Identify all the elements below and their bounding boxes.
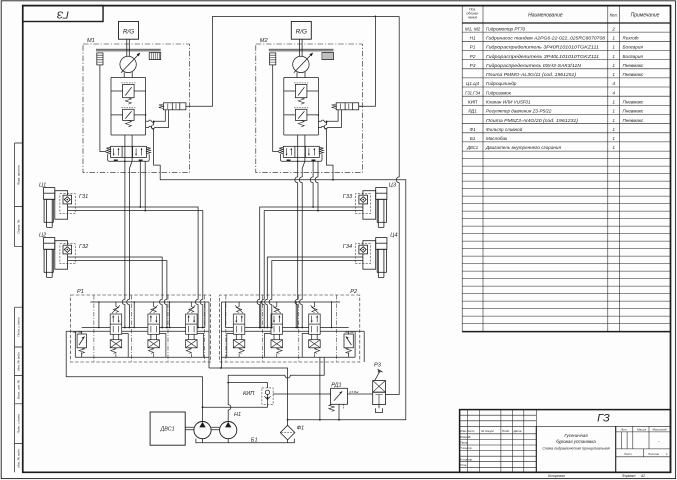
junction: pump 2 line to КИП branch [227, 382, 229, 384]
junction: drain at filter riser [287, 419, 289, 421]
engine to pump shaft [185, 427, 219, 430]
svg-text:Р1: Р1 [77, 289, 84, 295]
svg-text:Р1: Р1 [470, 45, 476, 50]
svg-text:1: 1 [612, 127, 615, 132]
wire: КИП output to РД1 [273, 393, 331, 395]
svg-text:Инв. № дубл.: Инв. № дубл. [16, 352, 20, 371]
wire: common case drain line to tank filter [154, 135, 406, 420]
svg-text:–: – [657, 439, 660, 443]
svg-text:Масштаб: Масштаб [653, 428, 667, 432]
svg-text:Р3: Р3 [374, 363, 382, 369]
junction: Ц1 drop B at P1 rail [202, 327, 204, 329]
svg-text:Пров.: Пров. [460, 441, 468, 445]
svg-text:Гидронасос тандем А2РG6-22-022: Гидронасос тандем А2РG6-22-022_025RC8070… [486, 36, 606, 41]
svg-text:Гусеничная: Гусеничная [564, 433, 588, 438]
junction: Ц2 drop A at P1 rail [161, 327, 163, 329]
svg-text:Подп. и дата: Подп. и дата [16, 414, 20, 434]
Р3 manual lever [375, 369, 383, 380]
junction: Ц3 drop A at P2 rail [259, 327, 261, 329]
wire: brake trunk down to valve Р3 with hop [385, 16, 399, 394]
junction: M2 valve port A at subplate [297, 160, 299, 162]
P2 section 1 [227, 302, 245, 358]
manifold P1 housing [66, 295, 211, 362]
wire: M2 valve drops to P2 with hops [295, 135, 305, 328]
svg-text:ДВС1: ДВС1 [160, 427, 175, 433]
title block texts [460, 428, 668, 467]
junction: M2 case drain into common drain [332, 179, 334, 181]
motor assembly M2 [256, 22, 362, 173]
svg-text:Гидрораспределитель 0SН3-SАК3/: Гидрораспределитель 0SН3-SАК3/11N [486, 63, 582, 68]
svg-text:Болгария: Болгария [623, 54, 644, 59]
wire: pump 1 pressure to P1 inlet [66, 362, 202, 421]
svg-text:Р2: Р2 [350, 289, 358, 295]
svg-text:КИП: КИП [468, 100, 478, 105]
svg-text:1: 1 [612, 145, 615, 150]
svg-text:А2: А2 [640, 474, 645, 478]
svg-text:Г31.Г34: Г31.Г34 [465, 90, 481, 95]
wire: M2 A/B tee joins with hops [310, 161, 318, 210]
svg-text:Дата: Дата [513, 429, 522, 433]
svg-text:Т.контр.: Т.контр. [460, 446, 472, 450]
svg-text:Гидромотор РТ70: Гидромотор РТ70 [486, 26, 526, 31]
wire: P2 tank return to drain [319, 357, 321, 420]
svg-text:Плита РМ5Z3-АI4G/20 (соd. 1961: Плита РМ5Z3-АI4G/20 (соd. 1961231) [486, 118, 579, 123]
svg-text:Регулятор давления Z3-Р5/22: Регулятор давления Z3-Р5/22 [486, 109, 552, 114]
junction: РД1 drain into drain line [338, 419, 340, 421]
wire: M1 shuttle port up and across top [190, 16, 400, 106]
junction: M2 line B into Ц3 pair [317, 210, 319, 212]
junction: M1 valve port A at subplate [124, 160, 126, 162]
wire: cylinder Ц2 pair to P1 [68, 257, 167, 328]
cylinder Ц2 with lock Г32 [44, 238, 76, 278]
svg-text:Взам. инв. №: Взам. инв. № [16, 379, 20, 399]
P2 section 2 [265, 302, 283, 358]
svg-text:Изм.Лист: Изм.Лист [460, 429, 475, 433]
left margin cell lines [15, 143, 23, 472]
svg-text:Ц2: Ц2 [39, 232, 47, 238]
svg-text:Г33: Г33 [343, 194, 353, 200]
svg-text:2: 2 [611, 26, 615, 31]
pump H1 front section [194, 422, 211, 439]
svg-text:Г32: Г32 [79, 244, 89, 250]
junction: P2 return into common return [220, 367, 222, 369]
junction: M2 drop A at P2 rail [297, 327, 299, 329]
svg-text:Гидроцилиндр: Гидроцилиндр [486, 81, 517, 86]
junction: Ц2 drop B at P1 rail [166, 327, 168, 329]
svg-text:Гидрораспределитель 3Р40L10101: Гидрораспределитель 3Р40L101010ТGKZ111 [486, 54, 600, 59]
svg-text:Лит.: Лит. [620, 428, 628, 432]
svg-text:Б1: Б1 [251, 437, 258, 443]
cylinder Ц4 with lock Г34 [355, 238, 387, 278]
svg-text:Инв. № подл.: Инв. № подл. [16, 448, 20, 467]
svg-text:Пневмакс: Пневмакс [623, 100, 645, 105]
svg-text:1: 1 [612, 54, 615, 59]
svg-text:Наименование: Наименование [528, 12, 563, 18]
cylinder Ц1 with lock Г31 [44, 188, 76, 228]
svg-text:Rexroth: Rexroth [623, 36, 640, 41]
svg-text:1: 1 [612, 72, 615, 77]
cylinder Ц3 with lock Г33 [355, 188, 387, 228]
svg-text:Пневмакс: Пневмакс [623, 118, 645, 123]
svg-text:4: 4 [612, 90, 615, 95]
right part [616, 432, 671, 457]
pressure regulator РД1 [331, 388, 348, 404]
svg-text:Листов: Листов [647, 452, 659, 456]
svg-text:буровая установка: буровая установка [556, 439, 596, 444]
wire: pump suction lines [203, 439, 288, 443]
motor assembly M1 [83, 22, 190, 173]
svg-text:Перв. примен.: Перв. примен. [16, 164, 20, 185]
junction: P2 drain into drain line [319, 419, 321, 421]
junction: pump 1 line to КИП branch [202, 406, 204, 408]
svg-text:160 bar: 160 bar [345, 330, 356, 334]
tank Б1 [196, 439, 294, 443]
table row texts [465, 26, 644, 150]
svg-text:Р3: Р3 [470, 63, 476, 68]
svg-text:Пневмакс: Пневмакс [623, 72, 645, 77]
junction: Ц4 drop A at P2 rail [266, 327, 268, 329]
svg-text:Масса: Масса [637, 428, 646, 432]
svg-text:ГЗ: ГЗ [597, 413, 610, 425]
corner designation box [23, 6, 103, 22]
junction: M2 line A into Ц3 pair [312, 206, 314, 208]
junction: Ц3 drop B at P2 rail [263, 327, 265, 329]
svg-text:Примечание: Примечание [631, 12, 660, 18]
svg-text:Кол.: Кол. [610, 12, 618, 17]
junction: Ц1 drop A at P1 rail [197, 327, 199, 329]
table grid [462, 6, 619, 332]
svg-text:Ц4: Ц4 [390, 232, 397, 238]
svg-text:Б1: Б1 [470, 136, 476, 141]
junction: Ц4 drop B at P2 rail [271, 327, 273, 329]
svg-text:Н.контр.: Н.контр. [460, 457, 473, 461]
P2 section 3 [302, 302, 320, 358]
junction: M1 drop B at P1 rail [129, 327, 131, 329]
svg-text:М2: М2 [260, 38, 269, 44]
svg-text:1: 1 [612, 136, 615, 141]
svg-text:чение: чение [468, 16, 477, 20]
svg-text:КИП: КИП [243, 391, 255, 397]
svg-text:Н1: Н1 [234, 412, 241, 418]
svg-text:Г34: Г34 [343, 244, 352, 250]
filter Ф1 [280, 425, 295, 440]
manifold P2 housing (mirrored) [220, 295, 365, 362]
svg-text:Пневмакс: Пневмакс [623, 109, 645, 114]
svg-text:Ц3: Ц3 [389, 182, 397, 188]
svg-text:1: 1 [612, 45, 615, 50]
junction: M2 drop B at P2 rail [301, 327, 303, 329]
wire: cylinder Ц4 pair to P2 [265, 257, 363, 328]
svg-text:Фильтр сливной: Фильтр сливной [486, 126, 523, 132]
pump H1 rear section [220, 422, 237, 439]
svg-text:РД1: РД1 [331, 383, 341, 389]
svg-text:Гидрораспределитель 3Р40R10101: Гидрораспределитель 3Р40R101010ТGKZ111 [486, 45, 600, 50]
svg-text:М1, М2: М1, М2 [465, 26, 481, 31]
junction: M1 drop A at P1 rail [124, 327, 126, 329]
svg-text:Маслобак: Маслобак [486, 136, 508, 141]
svg-text:Разраб.: Разраб. [460, 435, 471, 439]
engine ДВС1 [150, 412, 185, 445]
wire: cylinder Ц1 pair to P1 [68, 207, 203, 328]
svg-text:Справ. №: Справ. № [16, 219, 20, 234]
svg-text:Ц1: Ц1 [39, 182, 46, 188]
junction: M2 brake line tee into top trunk [375, 16, 377, 18]
shuttle valve КИП [262, 388, 273, 405]
svg-text:1: 1 [612, 63, 615, 68]
svg-text:4: 4 [612, 81, 615, 86]
svg-text:ДВС1: ДВС1 [466, 145, 478, 150]
svg-text:Утв.: Утв. [460, 463, 467, 467]
P1 section 1 [110, 302, 128, 358]
svg-text:4,5 Bar: 4,5 Bar [349, 390, 360, 394]
svg-text:Плита РММО-АL3G/11 (соd. 19612: Плита РММО-АL3G/11 (соd. 1961251) [486, 72, 577, 77]
svg-text:160 bar: 160 bar [73, 330, 84, 334]
wire: cylinder Ц3 pair to P2 [257, 207, 363, 328]
svg-text:№ докум.: № докум. [481, 429, 494, 433]
svg-text:Подп. и дата: Подп. и дата [16, 317, 20, 337]
svg-text:Н1: Н1 [470, 36, 476, 41]
svg-text:Р2: Р2 [470, 54, 476, 59]
svg-text:М1: М1 [87, 38, 95, 44]
svg-text:Гидрозамок: Гидрозамок [486, 90, 512, 95]
wire: M1 valve drops to P1 [122, 135, 132, 328]
svg-text:Подп.: Подп. [502, 429, 510, 433]
Р3 tank [376, 405, 383, 413]
wire: M1 A/B tee joins [140, 161, 145, 210]
svg-text:Копировал: Копировал [548, 474, 565, 478]
svg-text:Клапан ИЛИ VU5F01: Клапан ИЛИ VU5F01 [486, 100, 531, 105]
svg-text:Схема гидравлическая принципиа: Схема гидравлическая принципиальная [542, 447, 609, 451]
left part verticals [468, 410, 537, 473]
svg-text:1: 1 [612, 100, 615, 105]
svg-text:Формат: Формат [622, 474, 636, 478]
wire: shuttle КИП lower feed [203, 404, 268, 407]
svg-text:1: 1 [612, 109, 615, 114]
svg-text:Пневмакс: Пневмакс [623, 63, 645, 68]
left part horizontals [460, 415, 671, 467]
svg-text:Лист: Лист [623, 452, 632, 456]
svg-text:Ф1: Ф1 [469, 127, 476, 132]
wire: M2 shuttle port riser to top line [359, 16, 376, 106]
wire: shuttle КИП upper feed [228, 383, 267, 388]
wire: pump 2 pressure riser to P2 inlet [228, 358, 324, 422]
valve Р3 [373, 381, 386, 393]
svg-text:РД1: РД1 [468, 109, 477, 114]
svg-text:ГЗ: ГЗ [56, 8, 69, 20]
wire: M2 case drain stub [326, 135, 333, 180]
svg-text:Ц1.Ц4: Ц1.Ц4 [466, 81, 480, 86]
svg-text:1: 1 [612, 36, 615, 41]
P1 section 2 [148, 302, 166, 358]
svg-text:Болгария: Болгария [623, 45, 644, 50]
left margin rotated labels [16, 164, 20, 467]
junction: M1 line B into Ц1 pair [144, 210, 146, 212]
P1 section 3 [186, 302, 204, 358]
wire: РД1 output to Р3 [347, 393, 372, 395]
svg-text:Г31: Г31 [79, 194, 88, 200]
svg-text:Двигатель внутреннего сгорания: Двигатель внутреннего сгорания [485, 145, 561, 150]
wire: P1 tank return to filter [209, 362, 288, 425]
svg-text:1: 1 [612, 118, 615, 123]
svg-text:Ф1: Ф1 [297, 426, 305, 432]
junction: M1 line A into Ц1 pair [139, 206, 141, 208]
wire: РД1 drain [338, 404, 340, 420]
